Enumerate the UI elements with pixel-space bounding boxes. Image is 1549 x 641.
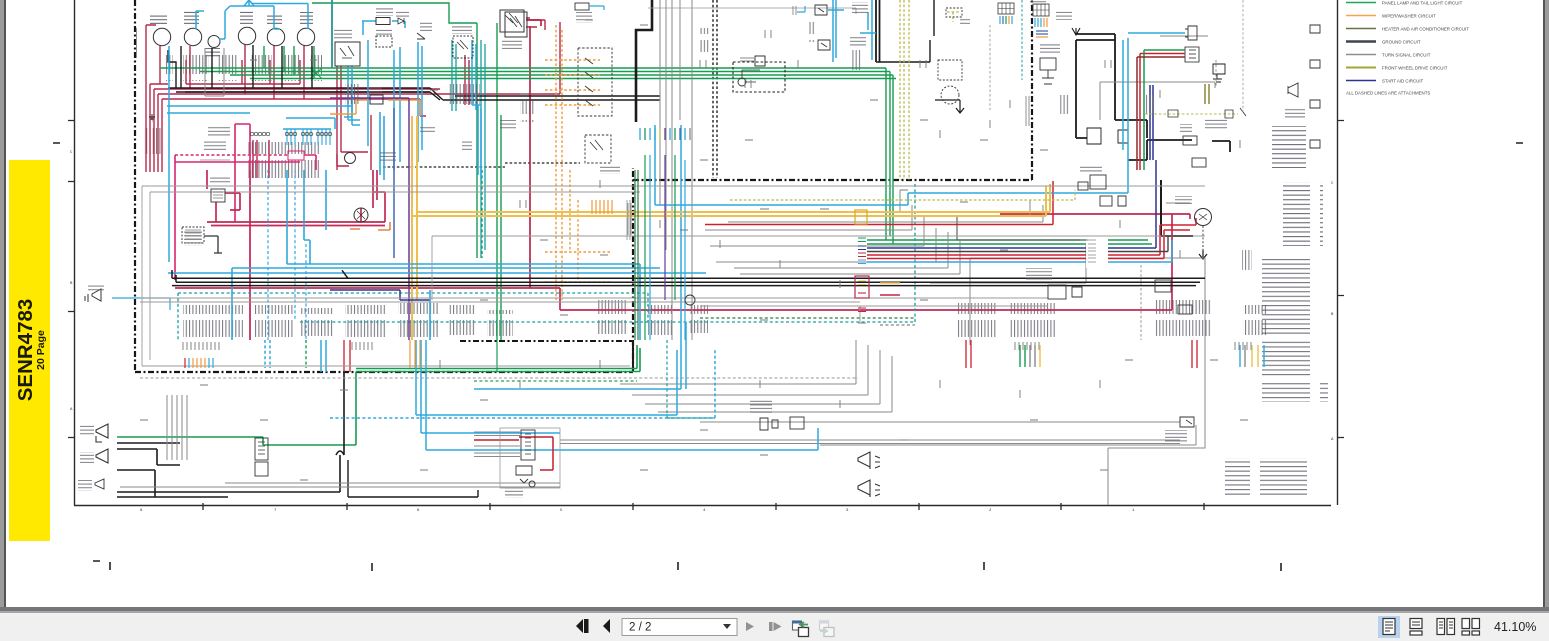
crimson comp box (855, 276, 869, 298)
border ruler ticks bottom (203, 503, 1204, 510)
continuous facing layout (1462, 619, 1480, 636)
turn lamp (96, 449, 108, 463)
wire red fuel sender (474, 437, 553, 470)
wire olive resistor area (947, 12, 960, 22)
wire red long 295 (880, 294, 900, 296)
wire teal trunk (331, 0, 333, 68)
svg-text:8: 8 (140, 509, 143, 513)
wire crimson alt breaker loop (207, 170, 385, 226)
alternator dash drop (1202, 226, 1204, 252)
wire orange dashed monitor (545, 25, 612, 300)
wire cyan h415 (416, 340, 677, 415)
wire crimson gauge drops (160, 45, 304, 99)
wire black lamp wires (117, 443, 228, 497)
wire cyan engine shutdown (1128, 32, 1185, 34)
wire crimson left march (146, 152, 162, 172)
continuous layout (1410, 619, 1422, 636)
operator station corner riser (632, 341, 634, 372)
main relay circle (345, 153, 356, 164)
alternator breaker box (211, 189, 225, 202)
label cluster small extras (345, 22, 1252, 270)
svg-text:3: 3 (846, 509, 849, 513)
svg-text:FRONT WHEEL DRIVE CIRCUIT: FRONT WHEEL DRIVE CIRCUIT (1382, 66, 1448, 71)
wire magenta breaker loop (175, 155, 316, 280)
wire black platform drop (876, 0, 934, 62)
machine harness dashed pair (713, 0, 717, 178)
operator station dash border (135, 0, 1032, 372)
wire gray ladder right steps (700, 190, 936, 262)
legend turn signal line (1346, 54, 1376, 56)
page combo box (622, 619, 737, 636)
front drive solenoid (1100, 196, 1112, 206)
wire green bundle h (160, 68, 896, 79)
monitor panel dashed box (578, 48, 612, 116)
wire cyan resistor run (362, 21, 405, 35)
gauge labels (150, 11, 313, 58)
wire green gauge stubs (264, 46, 314, 79)
cable as table (1262, 382, 1328, 402)
bucket positioner solenoid (760, 418, 778, 430)
wire red right bundle pair (867, 225, 1164, 259)
start aid sw box (370, 95, 383, 104)
wire gray fuel rows (474, 432, 520, 457)
svg-text:5: 5 (560, 509, 563, 513)
wire dkgray right bundle (867, 235, 1168, 252)
wire gray dashed v1216 (1215, 60, 1217, 86)
first page button (576, 619, 583, 633)
wire black bundle arrow (172, 270, 348, 282)
converter block (1078, 182, 1088, 190)
wire gray nested steps (620, 340, 892, 412)
wire cyan backup alarm (112, 298, 170, 310)
prev view icon (793, 621, 809, 637)
wire navy pair engine (1150, 85, 1153, 160)
arci conn box (755, 56, 765, 66)
transmission neutralizer boxes (1087, 128, 1128, 144)
gauge coolant temp (297, 28, 314, 45)
gauge voltmeter (267, 28, 284, 45)
wire orange connector ticks (592, 200, 612, 214)
neutral start sw box (1090, 175, 1106, 189)
bucket positioner sw (1180, 417, 1194, 427)
wire gray flood run (120, 483, 560, 487)
conn stack left low (255, 438, 268, 460)
labels below crimson bundle (144, 128, 162, 154)
wire crimson h84 drops (186, 60, 300, 84)
legend wiper line (1346, 15, 1376, 17)
wire crimson start sw (337, 66, 368, 170)
svg-text:B: B (70, 282, 73, 286)
wire green front drive sw (496, 340, 498, 372)
wire red ladder long (705, 181, 1053, 225)
wire green dashed y380 (474, 380, 637, 382)
wire teal dashed long (178, 293, 915, 340)
wire gray lamp labels v (167, 395, 187, 460)
wire olive long h (730, 190, 1075, 200)
wire gray alt stub (930, 203, 1190, 283)
front water sw (585, 135, 611, 163)
fuse label stub (793, 6, 796, 15)
wire blue v394 (393, 108, 395, 258)
wire gray big frame (970, 258, 1205, 505)
wire olive verticals (900, 0, 909, 180)
svg-text:TURN SIGNAL CIRCUIT: TURN SIGNAL CIRCUIT (1382, 53, 1431, 58)
coolant sw b (1155, 280, 1171, 292)
ac dashed row (1145, 113, 1238, 115)
harness as table (1262, 258, 1320, 334)
svg-text:WIPER/WASHER CIRCUIT: WIPER/WASHER CIRCUIT (1382, 14, 1436, 19)
wire dark v957 (957, 215, 1086, 240)
transmission solenoid (1048, 285, 1066, 299)
svg-text:2 / 2: 2 / 2 (629, 622, 651, 634)
legend heater line (1346, 28, 1376, 30)
wire navy step mid (330, 290, 430, 300)
conn ticks row y340 clusters (183, 342, 1251, 350)
wire black thick v876 (876, 0, 880, 62)
prev page button (603, 619, 610, 633)
border zone ticks right (1337, 121, 1344, 438)
wire cyan start sw drops (348, 66, 360, 125)
svg-text:ALL DASHED LINES ARE ATTACHMEN: ALL DASHED LINES ARE ATTACHMENTS (1346, 91, 1430, 96)
wire black gnd merge (168, 88, 660, 100)
wire crimson fuse drops (253, 140, 269, 178)
wire red engine bundle (1140, 54, 1185, 171)
schematic note block (1225, 458, 1307, 498)
gray h8 long (648, 8, 856, 14)
wire black engine steps (1076, 34, 1147, 138)
wire cyan right cluster (828, 0, 876, 62)
schematic left border (74, 0, 76, 505)
wire cyan fusepanel feed (283, 118, 335, 129)
wire black step mid (636, 0, 652, 122)
next view icon disabled (820, 621, 835, 637)
svg-text:41.10%: 41.10% (1494, 620, 1536, 634)
wire cyan h433 long (421, 340, 560, 433)
engine oil sender sym (1213, 64, 1225, 82)
wire gray ladder extra (722, 200, 1043, 274)
fuel conn stack (521, 430, 535, 460)
wire green dashed attach (306, 170, 482, 368)
wire cyan mid v1128b (1122, 40, 1124, 150)
start switch box (335, 42, 360, 66)
diode symbol (398, 18, 404, 24)
wire green engine bundle (1144, 50, 1185, 170)
blower dashed circle (941, 86, 959, 104)
wire magenta mid h (420, 115, 426, 117)
wiper connector grid (1033, 4, 1049, 16)
wire green right bundle (867, 240, 1152, 244)
resistor 7t box (946, 8, 962, 17)
wire magenta fuse feed (235, 124, 250, 222)
relay box mid (500, 10, 524, 32)
rear floor lamp sw (417, 33, 425, 39)
wire mid conn verticals below (645, 155, 685, 340)
wire dkgreen pair v635 (635, 170, 638, 340)
border zone ticks left (68, 121, 75, 438)
wire dkred engine bundle (1137, 57, 1185, 170)
generator exciter dash line (460, 340, 632, 342)
fuse row circles (250, 132, 332, 136)
backup alarm left (85, 289, 101, 302)
service meter (208, 36, 220, 48)
wire cyan anchro drop (472, 40, 481, 110)
wire crimson v3 (154, 89, 440, 152)
head lamp right (858, 452, 880, 469)
facing layout (1437, 619, 1455, 635)
wiper color stubs (1035, 18, 1041, 27)
wire gray bucket runs (700, 418, 1196, 445)
wire gray mid verticals (660, 0, 692, 340)
wire crimson running lamp sw wires (526, 18, 545, 30)
right data tables (1225, 126, 1328, 498)
fuel sender symbol (516, 466, 535, 487)
gauge tachometer (153, 28, 170, 45)
engine shutdown solenoid (1185, 26, 1197, 40)
wire crimson v5 (162, 99, 420, 152)
wire magenta trunk v (249, 131, 251, 340)
wire red alternator (1160, 218, 1196, 230)
wire black gnd sym (149, 114, 155, 121)
wire gray op labels (627, 200, 630, 240)
black dashed mid h (383, 163, 580, 167)
coolant sender b (1178, 305, 1192, 314)
svg-text:C: C (1331, 182, 1334, 186)
svg-text:2: 2 (989, 509, 992, 513)
wire teal anchro pair (452, 40, 456, 111)
legend panel lamp line (1346, 2, 1376, 4)
fuse comp top (575, 3, 589, 10)
wire crimson trunk v250 (249, 170, 251, 340)
wire green top run (312, 3, 477, 258)
turn lamp right (858, 480, 880, 497)
svg-text:1: 1 (1132, 509, 1135, 513)
wire cyan v169 (168, 46, 170, 262)
svg-text:START AID CIRCUIT: START AID CIRCUIT (1382, 79, 1424, 84)
wire black to engine stub (1199, 250, 1207, 259)
wire black mid bundle (172, 278, 1205, 285)
svg-text:B: B (1331, 313, 1334, 317)
wire teal dashed v667 (667, 340, 715, 418)
wire green lamp run (117, 345, 640, 445)
svg-text:A: A (70, 408, 73, 412)
wire green v497 (497, 23, 501, 340)
start tra lamp (96, 424, 108, 442)
labels gauge drop wires (165, 55, 173, 81)
legend top right (1346, 3, 1376, 81)
conn colored cluster mid2 (1020, 345, 1264, 367)
wire black h492 (348, 460, 478, 497)
wire navy right bundle (867, 160, 1156, 248)
wire crimson v4 (158, 22, 560, 152)
wire cyan long113 (167, 112, 250, 114)
svg-text:HEATER AND AIR CONDITIONER CIR: HEATER AND AIR CONDITIONER CIRCUIT (1382, 27, 1469, 32)
wire crimson main relay (337, 115, 371, 170)
single page layout active (1378, 616, 1400, 638)
wire label ticks scatter (140, 20, 1248, 480)
wire gray dashed 325 (880, 324, 915, 326)
wire cyan v681 (474, 125, 686, 389)
legend start aid line (1346, 80, 1376, 82)
wire gray h575 (200, 159, 230, 161)
coolant sw (1183, 136, 1197, 145)
legend front wheel line (1346, 67, 1376, 69)
wire crimson anchro (465, 55, 469, 105)
wire cyan h450 bucket (426, 340, 818, 450)
sheet fold marks (110, 562, 1281, 571)
right conn stack bundle ticks (858, 238, 866, 323)
gauge fuel (184, 28, 201, 45)
battery disconnect dashed box (182, 227, 204, 243)
last page button disabled (769, 622, 773, 631)
gray dashed v990 (989, 25, 991, 110)
wire amber long pair (412, 184, 1050, 216)
arci lamp dashed box (733, 62, 785, 92)
symbol description list (1283, 182, 1323, 246)
wire cyan mid h bundle (168, 264, 706, 273)
wire black coolant loop (1128, 140, 1230, 160)
wire cyan thick pair mid (321, 340, 326, 372)
svg-text:PANEL LAMP AND TAIL LIGHT CIRC: PANEL LAMP AND TAIL LIGHT CIRCUIT (1382, 1, 1463, 6)
wire gray long runs low (560, 440, 1180, 444)
wire cyan mid trunk (655, 38, 1128, 205)
wire orange start aid (330, 100, 420, 116)
wire teal dashed v (648, 184, 915, 322)
fuse panel lower labels (183, 305, 243, 337)
zone letters (70, 151, 1334, 513)
wire cyan dashed low (330, 350, 715, 418)
conn colored row left (185, 358, 213, 368)
wire crimson v530 (527, 20, 541, 288)
wire crimson long 288 (175, 214, 1190, 310)
running lamp sw box (505, 12, 527, 37)
svg-text:C: C (70, 151, 73, 155)
wire cyan top net (196, 0, 308, 39)
switch stack right top (815, 5, 1320, 148)
wire cyan knot verticals (287, 105, 481, 340)
yellow comp box (855, 210, 867, 224)
alternator circle (1195, 209, 1212, 226)
wire conn row y125 mid (640, 128, 690, 140)
wire orange fuse row (410, 340, 420, 368)
wire cyan left verticals mid (265, 340, 270, 368)
flood lamp gnd (95, 479, 104, 489)
wire teal verticals mid (481, 40, 485, 258)
wire gray dashed y378 (140, 377, 858, 379)
svg-text:6: 6 (417, 509, 420, 513)
wire gray misc mid (142, 186, 1205, 366)
svg-text:GROUND CIRCUIT: GROUND CIRCUIT (1382, 40, 1421, 45)
wire crimson stub 230 (350, 222, 390, 230)
wire crimson supply left (146, 25, 156, 152)
yellow bookmark SENR4783 (9, 160, 50, 541)
wire magenta breaker dashed (175, 154, 288, 156)
arci lamp circle (738, 78, 746, 86)
wire red conn drops (344, 340, 1197, 372)
wire gray dashed v1141 (1140, 265, 1142, 340)
wire black to platform arrow (935, 100, 964, 113)
abbrev color table (1272, 126, 1306, 168)
wire crimson v2 (150, 84, 168, 152)
wire cyan rear floor (400, 42, 422, 162)
thermostat dashed box (938, 60, 962, 80)
gray dashed v1243 (1242, 0, 1244, 112)
next page button disabled (746, 622, 754, 631)
wire purple v409 (330, 98, 409, 340)
wire label vticks scatter (440, 30, 1240, 408)
svg-text:7: 7 (274, 509, 277, 513)
svg-text:4: 4 (703, 509, 706, 513)
wire yellow 283 (880, 282, 900, 284)
beacon relay dashed box (376, 36, 392, 47)
svg-text:A: A (1331, 438, 1334, 442)
legend ground line (1346, 40, 1376, 42)
wire green verticals right (886, 68, 893, 244)
resistor box (376, 18, 390, 25)
teal dashed v1022 (1021, 0, 1023, 80)
wire black lamp joiner (228, 372, 344, 492)
wire gray right h small (1100, 36, 1215, 120)
wiper conn table B (998, 3, 1014, 14)
wire black bundle2 (185, 91, 430, 93)
fuse panel wire labels (248, 142, 320, 178)
wire cyan right bundle (867, 240, 1172, 262)
start relay circle B (685, 295, 695, 305)
labels small text clusters (drawn as row patterns) (78, 0, 1305, 498)
gauge conv temp (238, 27, 255, 44)
horn symbol (1288, 83, 1298, 97)
coolant sender (1192, 158, 1206, 167)
bundle label gap (1086, 237, 1108, 268)
schematic bottom border (74, 505, 1331, 507)
schematic right border (1337, 0, 1339, 505)
wire orange v mid (412, 116, 417, 340)
ac clutch olive pair (1205, 84, 1209, 104)
breaker box (288, 151, 304, 160)
engine oil conn block (1185, 47, 1199, 62)
main relay cv1279 circle (354, 208, 368, 222)
wire dkgreen dashed y318 (700, 317, 915, 319)
wire cyan long106 (167, 96, 352, 106)
wire black gauge gnd drops (168, 45, 312, 88)
wire gray gauge risers (205, 48, 224, 96)
backup alarm box (1040, 58, 1056, 70)
wire cyan fuse tail (344, 98, 360, 117)
fuel area box (500, 428, 560, 488)
wire cyan fuse drops (287, 129, 330, 145)
anchro sw box (453, 36, 473, 58)
wire green junction star (310, 68, 322, 79)
wire crimson relay knot (361, 170, 385, 222)
wire black alternator gnd (1161, 180, 1193, 236)
wire cyan dashed knot verts (268, 170, 306, 340)
wire black to engine arrow (1072, 28, 1080, 35)
wire black battery stub (204, 236, 222, 253)
wire as table (1262, 340, 1320, 378)
wire cyan beacon (368, 40, 394, 170)
wire cyan drops below bundle (232, 264, 640, 340)
op station rotated label cols (628, 203, 631, 235)
